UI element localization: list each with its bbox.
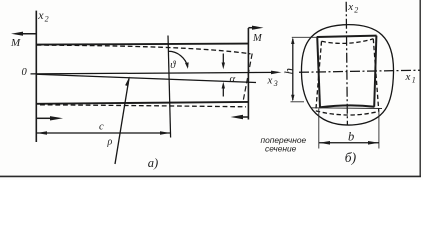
- svg-text:x: x: [405, 71, 411, 83]
- svg-text:б): б): [345, 150, 357, 165]
- b dimension extension left: [318, 109, 320, 149]
- svg-text:2: 2: [354, 5, 358, 14]
- svg-text:0: 0: [22, 67, 28, 78]
- rho leader line: [115, 79, 129, 165]
- frame bottom border: [0, 175, 421, 177]
- svg-text:x: x: [267, 74, 273, 86]
- svg-text:c: c: [99, 121, 104, 132]
- svg-text:α: α: [230, 73, 236, 85]
- rectangle top edge: [317, 36, 377, 37]
- rectangle bottom edge: [320, 105, 375, 107]
- svg-text:а): а): [148, 156, 158, 170]
- deformed axis (thin sloping line): [36, 74, 256, 82]
- thin line under bottom edge: [312, 107, 383, 110]
- x3 axis: [31, 72, 278, 74]
- beam bottom edge: [36, 102, 248, 104]
- b dimension extension right: [378, 112, 380, 149]
- deformed section left edge (dashed): [316, 41, 322, 111]
- force arrow bottom-left (couple): [37, 117, 52, 119]
- alpha angle arrow lower (pointing up): [222, 87, 224, 97]
- svg-text:M: M: [10, 37, 21, 49]
- deformed end section (dashed tilted): [243, 54, 252, 102]
- x2 axis of section (dash-dot): [346, 2, 347, 125]
- extension line at section c (theta vertex): [168, 36, 171, 138]
- deformed bottom edge (dashed): [40, 105, 246, 107]
- alpha angle arrow upper (pointing down): [222, 54, 224, 65]
- left end section line / x2 axis: [35, 11, 37, 142]
- right end section line: [247, 28, 249, 120]
- rectangle right edge: [374, 36, 376, 107]
- b dimension line: [319, 142, 379, 144]
- deformed section top edge (dashed sag): [322, 39, 374, 44]
- dimension line c: [37, 132, 171, 134]
- rectangle left edge: [317, 37, 320, 108]
- h extension line top: [292, 36, 317, 38]
- force arrow bottom-right (couple): [241, 116, 248, 118]
- svg-text:2: 2: [45, 15, 49, 24]
- svg-text:ρ: ρ: [107, 136, 113, 147]
- deformed top edge (dashed): [37, 45, 251, 54]
- svg-text:M: M: [252, 33, 263, 44]
- frame right border: [419, 0, 421, 177]
- theta angle arc: [168, 51, 187, 67]
- moment arrow M right top: [248, 27, 257, 29]
- moment arrow M left top: [15, 33, 36, 35]
- svg-text:b: b: [348, 130, 354, 144]
- svg-text:x: x: [347, 1, 353, 13]
- svg-text:сечение: сечение: [265, 144, 297, 154]
- beam top edge: [36, 44, 248, 45]
- deformed section bottom edge (dashed sag): [316, 111, 379, 115]
- svg-text:ϑ: ϑ: [170, 60, 176, 71]
- h extension line bottom: [291, 101, 305, 103]
- x1 axis of section (dash-dot): [299, 70, 420, 72]
- svg-text:3: 3: [273, 79, 278, 88]
- svg-text:x: x: [37, 8, 44, 22]
- svg-text:h: h: [281, 68, 296, 75]
- svg-text:1: 1: [412, 75, 416, 84]
- deformed section right edge (dashed): [373, 39, 379, 112]
- h dimension line: [292, 39, 294, 100]
- outer warped contour (oval): [301, 25, 393, 125]
